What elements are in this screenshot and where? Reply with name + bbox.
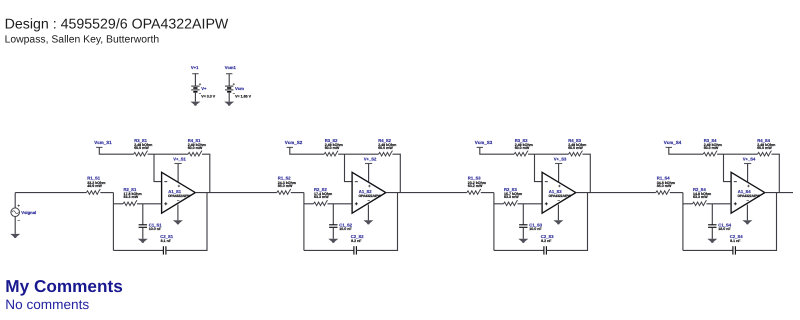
wire node A vertical [112,193,114,251]
svg-text:V+: V+ [201,86,207,91]
source plus mark [18,205,20,207]
svg-text:V= 3.3 V: V= 3.3 V [201,94,215,98]
resistor R2_S3 [504,187,523,206]
svg-text:Lowpass, Sallen Key, Butterwor: Lowpass, Sallen Key, Butterworth [5,34,160,45]
wire to non-inverting input [518,203,543,205]
ground [518,239,528,243]
resistor R3_S2 [324,138,343,156]
ground [138,239,148,243]
wire [291,192,304,194]
svg-text:63.2 mW: 63.2 mW [468,184,483,188]
wire [736,193,777,251]
resistor R3_S1 [134,138,153,156]
wire [166,193,207,251]
wire bottom feedback [304,249,354,251]
wire [290,147,324,154]
svg-text:OPA4322AIPW: OPA4322AIPW [359,194,382,198]
svg-text:R1_S3: R1_S3 [468,176,481,181]
svg-text:V= 1.65 V: V= 1.65 V [235,94,251,98]
capacitor C1_S2 [329,204,353,239]
svg-text:10.0 nF: 10.0 nF [149,227,162,231]
wire [481,192,494,194]
svg-text:R1_S2: R1_S2 [278,176,291,181]
svg-text:V+1: V+1 [191,65,199,70]
svg-text:63.3 mW: 63.3 mW [504,195,519,199]
svg-text:OPA4322AIPW: OPA4322AIPW [549,194,572,198]
svg-text:8.1 nF: 8.1 nF [161,239,172,243]
wire op-amp supply pin [558,164,560,185]
wire op-amp supply pin [747,164,749,185]
svg-text:Vcm1: Vcm1 [225,65,237,70]
battery Vcm [225,86,233,92]
voltage source Vsignal [11,208,20,217]
wire [669,147,703,154]
wire op-amp ground pin [177,205,179,221]
wire node A vertical [303,193,305,251]
terminal bar V+_S1 [175,163,182,165]
wire [148,153,188,155]
wire junction to inverting input [724,154,732,181]
wire [480,147,514,154]
wire [528,153,568,155]
wire [304,203,314,205]
battery plus mark [199,83,201,85]
wire [547,193,588,251]
ground [328,239,338,243]
terminal bar Vcm_S1 [96,146,102,148]
svg-text:10.0 nF: 10.0 nF [529,227,542,231]
wire op-amp ground pin [367,205,369,221]
svg-text:Vcm: Vcm [235,86,244,91]
capacitor C1_S3 [519,204,543,239]
wire op-amp supply pin [368,164,370,185]
wire to non-inverting input [137,203,162,205]
resistor R3_S4 [703,138,722,156]
op-amp A1_S4 [731,172,765,213]
terminal bar V+_S3 [555,163,562,165]
wire [670,192,683,194]
ground [173,220,183,224]
battery minus mark [199,92,201,94]
wire [194,92,196,102]
svg-text:Vcm_S4: Vcm_S4 [664,140,682,145]
svg-text:R1_S4: R1_S4 [657,176,670,181]
wire to non-inverting input [328,203,353,205]
svg-text:Design : 4595529/6 OPA4322AIPW: Design : 4595529/6 OPA4322AIPW [5,16,229,32]
resistor R2_S1 [123,187,142,206]
resistor R1_S4 [656,176,675,195]
capacitor C2_S3 [541,234,554,255]
resistor R4_S4 [757,138,775,156]
svg-text:63.3 mW: 63.3 mW [314,195,329,199]
resistor R1_S1 [86,176,105,195]
wire [14,217,16,234]
wire junction to inverting input [345,154,353,181]
wire stage 1 output [195,192,276,194]
wire op-amp ground pin [746,205,748,221]
svg-text:60.0 mW: 60.0 mW [568,146,583,150]
battery V+ [191,86,199,92]
svg-text:60.0 mW: 60.0 mW [757,146,772,150]
svg-text:60.0 mW: 60.0 mW [515,146,530,150]
wire [494,203,504,205]
wire stage 4 output [765,192,793,194]
svg-text:My Comments: My Comments [5,276,122,296]
svg-text:8.2 nF: 8.2 nF [351,239,362,243]
wire [357,193,398,251]
svg-text:60.0 mW: 60.0 mW [378,146,393,150]
svg-text:V+_S4: V+_S4 [743,157,756,162]
svg-text:No comments: No comments [5,297,89,312]
ground [742,220,752,224]
svg-text:OPA4322AIPW: OPA4322AIPW [738,194,761,198]
svg-text:8.1 nF: 8.1 nF [730,239,741,243]
ground [707,239,717,243]
wire op-amp ground pin [557,205,559,221]
wire junction to inverting input [154,154,162,181]
svg-text:Vsignal: Vsignal [21,210,36,215]
svg-text:Vcm_S2: Vcm_S2 [285,140,303,145]
battery minus mark [233,92,235,94]
wire [113,203,123,205]
svg-text:R1_S1: R1_S1 [87,176,100,181]
op-amp A1_S3 [542,172,576,213]
ground [10,234,20,238]
svg-text:60.0 mW: 60.0 mW [704,146,719,150]
wire [99,147,133,154]
svg-text:60.0 mW: 60.0 mW [188,146,203,150]
svg-text:63.3 mW: 63.3 mW [693,195,708,199]
svg-text:60.0 mW: 60.0 mW [134,146,149,150]
resistor R4_S1 [188,138,206,156]
svg-text:V+_S1: V+_S1 [173,157,186,162]
svg-text:49.9 mW: 49.9 mW [87,184,102,188]
resistor R4_S3 [568,138,586,156]
wire [338,153,378,155]
wire to non-inverting input [707,203,732,205]
wire [683,203,693,205]
terminal bar V+1 [192,73,198,75]
wire bottom feedback [683,249,733,251]
resistor R4_S2 [378,138,396,156]
capacitor C1_S4 [708,204,732,239]
resistor R2_S2 [314,187,333,206]
wire node A vertical [682,193,684,251]
svg-text:V+_S3: V+_S3 [554,157,567,162]
ground [190,102,200,106]
ground [224,102,234,106]
op-amp A1_S2 [352,172,386,213]
wire stage 3 output [576,192,656,194]
terminal bar V+_S4 [744,163,751,165]
wire junction to inverting input [535,154,543,181]
ground [553,220,563,224]
terminal bar Vcm_S3 [477,146,483,148]
capacitor C2_S2 [351,234,364,255]
svg-text:60.0 mW: 60.0 mW [325,146,340,150]
svg-text:Vcm_S3: Vcm_S3 [475,140,493,145]
svg-text:8.2 nF: 8.2 nF [541,239,552,243]
svg-text:15.0 nF: 15.0 nF [339,227,352,231]
wire op-amp supply pin [177,164,179,185]
wire [228,74,230,86]
wire [583,154,591,192]
wire [14,193,16,208]
wire stage 2 output [386,192,467,194]
terminal bar Vcm1 [226,73,232,75]
terminal bar Vcm_S2 [287,146,293,148]
svg-text:18.0 nF: 18.0 nF [718,227,731,231]
wire [228,92,230,102]
wire [202,154,210,192]
battery plus mark [233,83,235,85]
svg-text:63.3 mW: 63.3 mW [124,195,139,199]
wire node A vertical [493,193,495,251]
capacitor C2_S4 [730,234,743,255]
capacitor C1_S1 [139,204,163,239]
wire [100,192,113,194]
source minus mark [18,219,20,221]
wire input to R1_S1 [15,192,86,194]
op-amp A1_S1 [162,172,196,213]
terminal bar V+_S2 [365,163,372,165]
terminal bar Vcm_S4 [666,146,672,148]
wire [194,74,196,86]
capacitor C2_S1 [160,234,173,255]
resistor R1_S2 [277,176,296,195]
svg-text:85.0 mW: 85.0 mW [278,184,293,188]
svg-text:OPA4322AIPW: OPA4322AIPW [168,194,191,198]
svg-text:Vcm_S1: Vcm_S1 [94,140,112,145]
resistor R2_S4 [693,187,712,206]
svg-text:V+_S2: V+_S2 [364,157,377,162]
resistor R3_S3 [514,138,533,156]
ground [363,220,373,224]
resistor R1_S3 [467,176,486,195]
wire bottom feedback [113,249,163,251]
wire [772,154,780,192]
wire [393,154,401,192]
wire [717,153,757,155]
svg-text:85.0 mW: 85.0 mW [657,184,672,188]
wire bottom feedback [494,249,544,251]
